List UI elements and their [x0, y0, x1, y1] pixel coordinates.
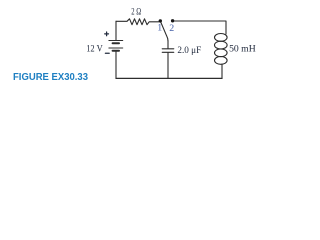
svg-text:12 V: 12 V	[86, 43, 103, 54]
svg-text:1: 1	[157, 22, 162, 33]
svg-text:2 Ω: 2 Ω	[131, 7, 141, 18]
svg-text:2.0 μF: 2.0 μF	[177, 45, 201, 56]
svg-text:50 mH: 50 mH	[229, 44, 256, 55]
svg-text:FIGURE EX30.33: FIGURE EX30.33	[13, 72, 88, 83]
svg-text:2: 2	[169, 23, 174, 34]
